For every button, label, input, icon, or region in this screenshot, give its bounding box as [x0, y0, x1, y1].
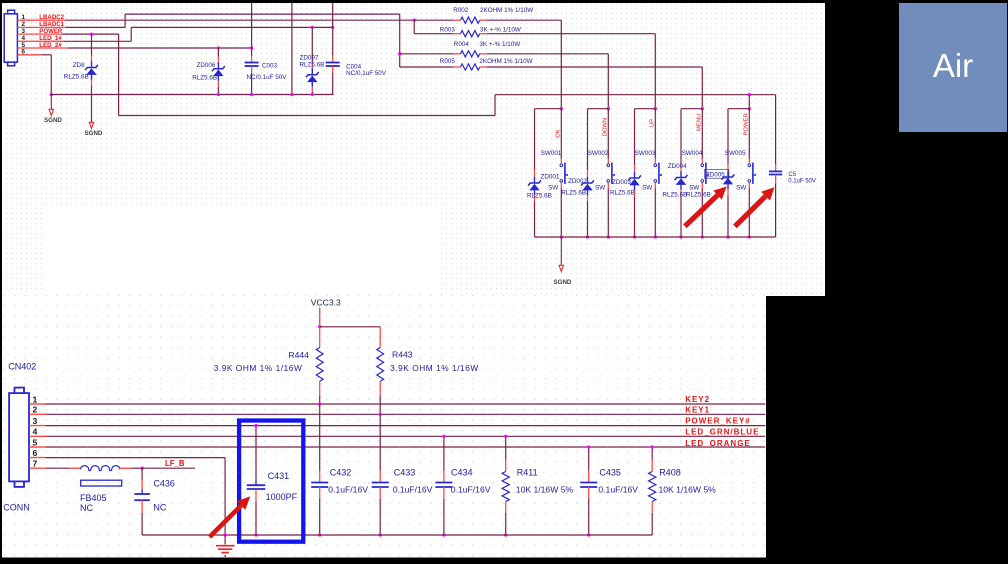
wire LBADC1 upper run — [125, 13, 400, 15]
svg-text:C435: C435 — [599, 468, 621, 478]
junction C431/POWER_KEY# row — [254, 424, 257, 427]
CN402 pin 2 stub (red) — [29, 413, 46, 415]
switch column 5: SW005 / ZD005 (POWER) — [686, 95, 756, 237]
svg-text:NC/0.1uF 50V: NC/0.1uF 50V — [247, 74, 288, 81]
junction LED_1#/ZD097 — [311, 26, 314, 29]
resistor R004 — [400, 41, 609, 57]
svg-text:C003: C003 — [262, 63, 278, 70]
capacitor C433 — [372, 415, 433, 536]
svg-text:POWER: POWER — [744, 113, 750, 135]
svg-text:RLZ5.6B: RLZ5.6B — [662, 191, 687, 198]
capacitor C435 — [580, 447, 638, 535]
wire row2 to right edge — [46, 413, 766, 415]
junction SW001/bottom bus — [560, 235, 563, 238]
pin 3 stub (red) — [17, 33, 62, 35]
svg-text:R003: R003 — [440, 26, 456, 33]
junction pin6/SGND bus — [50, 93, 53, 96]
junction ZD006/ground bus — [217, 93, 220, 96]
junction SW004/bottom bus — [701, 235, 704, 238]
svg-text:R443: R443 — [392, 350, 413, 360]
svg-text:LBADC2: LBADC2 — [39, 14, 64, 21]
junction SW005/bottom bus — [748, 235, 751, 238]
bottom GND bus — [142, 534, 652, 536]
junction LED_2#/ZD006 — [217, 46, 220, 49]
svg-text:C5: C5 — [788, 172, 796, 178]
CN402 pin 3 stub (red) — [29, 425, 46, 427]
switch column 2: SW002 / ZD002 (DOWN) — [561, 54, 615, 237]
resistor R408 — [649, 447, 717, 535]
junction R443/KEY1 row — [379, 413, 382, 416]
svg-text:7: 7 — [33, 459, 38, 469]
wire R003 feed drop — [413, 20, 415, 34]
bottom schematic sheet background — [2, 294, 766, 558]
wire POWER row3 — [62, 33, 119, 35]
svg-text:C434: C434 — [451, 468, 473, 478]
wire row6 drop to GND bus — [224, 458, 226, 535]
capacitor C003 — [245, 3, 288, 95]
svg-text:DOWN: DOWN — [603, 118, 609, 137]
pin 6 stub (red) — [17, 54, 42, 56]
pin 1 stub (red) — [17, 19, 66, 21]
wire POWER drop — [118, 34, 120, 115]
svg-text:ZD004: ZD004 — [668, 163, 687, 170]
wire pin6 drop to ground bus — [50, 55, 52, 95]
resistor R005 — [400, 58, 703, 70]
svg-text:LF_B: LF_B — [165, 459, 185, 468]
junction LBADC2/R002/R003 — [413, 19, 416, 22]
svg-text:NC: NC — [153, 503, 166, 513]
wire POWER lower run — [119, 115, 495, 117]
svg-text:3.9K OHM 1% 1/16W: 3.9K OHM 1% 1/16W — [390, 363, 479, 373]
svg-text:RLZ5.6B: RLZ5.6B — [686, 191, 711, 198]
junction VCC/R444/R443 — [318, 325, 321, 328]
svg-text:RLZ5.6B: RLZ5.6B — [64, 74, 89, 81]
svg-text:FB405: FB405 — [80, 493, 107, 503]
red callout arrow C (to C431) — [210, 496, 251, 537]
svg-text:4: 4 — [33, 427, 38, 437]
wire VCC to R443 — [320, 326, 381, 328]
junction C003/ground bus — [250, 93, 253, 96]
capacitor C431 (highlighted) — [247, 426, 298, 535]
svg-text:2KOHM 1% 1/10W: 2KOHM 1% 1/10W — [479, 58, 532, 65]
svg-text:UP: UP — [650, 119, 656, 127]
resistor R411 — [502, 436, 573, 535]
junction C435/GND bus — [587, 533, 590, 536]
ferrite bead FB405 — [46, 466, 143, 513]
svg-text:C432: C432 — [330, 468, 352, 478]
svg-text:ZD006: ZD006 — [197, 62, 216, 69]
junction R408/row5 — [651, 445, 654, 448]
svg-text:RLZ5.6B: RLZ5.6B — [561, 190, 586, 197]
svg-text:SW: SW — [642, 185, 652, 192]
svg-text:VCC3.3: VCC3.3 — [311, 298, 341, 308]
junction C433/GND bus — [379, 533, 382, 536]
svg-text:0.1uF/16V: 0.1uF/16V — [393, 484, 433, 494]
wire LED_1# row4 — [64, 40, 131, 42]
junction R004 feed — [398, 52, 401, 55]
svg-text:R408: R408 — [659, 468, 681, 478]
CN402 pin 1 stub (red) — [29, 403, 46, 405]
capacitor C432 — [311, 404, 368, 535]
red callout arrow B (to C5) — [735, 187, 775, 226]
capacitor C436 — [134, 468, 175, 535]
junction C435/row5 — [587, 445, 590, 448]
junction R444/KEY2 row — [318, 402, 321, 405]
junction SW003/bottom bus — [654, 235, 657, 238]
CN402 pin 6 stub (red) — [29, 457, 46, 459]
junction LED_2#/C003 — [250, 46, 253, 49]
svg-text:LED_ORANGE: LED_ORANGE — [685, 439, 751, 448]
wire row1 to right edge — [46, 403, 766, 405]
SGND stub 1 — [50, 95, 52, 110]
svg-text:ZD001: ZD001 — [541, 174, 560, 181]
svg-text:0.1uF/16V: 0.1uF/16V — [451, 484, 491, 494]
svg-text:R411: R411 — [517, 468, 538, 478]
switch bank bottom bus — [535, 236, 776, 238]
svg-text:R004: R004 — [454, 41, 470, 48]
svg-text:SW: SW — [548, 185, 558, 192]
pin 5 stub (red) — [17, 47, 68, 49]
power symbol VCC3.3 — [311, 298, 341, 327]
svg-text:1000PF: 1000PF — [266, 492, 298, 502]
svg-text:SW005: SW005 — [725, 150, 746, 157]
ground SGND symbol 3 (bank) — [554, 265, 572, 286]
wire POWER jog up — [494, 95, 496, 116]
wire LED_1# jog up — [130, 27, 132, 41]
pin 4 stub (red) — [17, 40, 64, 42]
ZD005 label selection box — [704, 170, 729, 179]
wire LF_B — [142, 467, 195, 469]
wire row6 — [46, 457, 226, 459]
zener diode ZD8 — [64, 34, 98, 122]
SGND stub (bank) — [560, 237, 562, 265]
red callout arrow A (to ZD005) — [685, 187, 727, 227]
svg-text:RLZ5.6B: RLZ5.6B — [527, 193, 552, 200]
junction C431/GND bus — [254, 533, 257, 536]
svg-text:ZD8: ZD8 — [73, 62, 85, 69]
wire row3 to right edge — [46, 425, 766, 427]
svg-text:3K +-% 1/10W: 3K +-% 1/10W — [480, 26, 521, 33]
junction POWER/ZD8 — [90, 32, 93, 35]
svg-text:CN402: CN402 — [8, 361, 36, 371]
connector CN402 (bottom-left, 7-pin) — [9, 388, 29, 487]
svg-text:RLZ5.6B: RLZ5.6B — [192, 75, 217, 82]
switch column 3: SW003 / ZD003 (UP) — [610, 34, 662, 237]
capacitor C004 — [326, 3, 387, 95]
wire LBADC1 row2 — [66, 26, 125, 28]
ground SGND symbol 2 (ZD8) — [85, 122, 103, 137]
svg-text:ZD097: ZD097 — [300, 54, 319, 61]
svg-text:KEY2: KEY2 — [685, 395, 710, 404]
wire row5 to right edge — [46, 446, 766, 448]
blue highlight box around C431 — [239, 421, 303, 542]
junction R411/row4 — [504, 435, 507, 438]
svg-text:1: 1 — [33, 394, 38, 404]
svg-text:SW004: SW004 — [682, 150, 703, 157]
svg-text:NC: NC — [80, 503, 93, 513]
svg-text:R002: R002 — [453, 7, 469, 14]
svg-text:NC/0.1uF 50V: NC/0.1uF 50V — [346, 70, 387, 77]
svg-text:LED_GRN/BLUE: LED_GRN/BLUE — [685, 428, 759, 437]
svg-text:R005: R005 — [440, 58, 456, 65]
junction C434/GND bus — [442, 533, 445, 536]
wire LBADC2 row1 — [66, 19, 414, 21]
svg-text:0.1uF/16V: 0.1uF/16V — [328, 484, 368, 494]
wire pin6 row6 — [42, 54, 51, 56]
svg-text:3.9K OHM 1% 1/16W: 3.9K OHM 1% 1/16W — [214, 363, 303, 373]
wire LBADC1 jog up — [124, 14, 126, 27]
junction POWER/SW005 riser — [748, 93, 751, 96]
svg-text:5: 5 — [33, 437, 38, 447]
svg-text:CONN: CONN — [3, 503, 30, 513]
svg-text:0.1uF/16V: 0.1uF/16V — [598, 484, 638, 494]
junction ZD097/ground bus — [311, 93, 314, 96]
wire LED_1# run to C004 — [131, 26, 333, 28]
Air theme box (slide thumbnail) — [899, 3, 1007, 132]
junction C434/row4 — [442, 435, 445, 438]
junction SW002/bottom bus — [607, 235, 610, 238]
junction ZD004 rail/bottom bus — [679, 235, 682, 238]
svg-text:RLZ5.6B: RLZ5.6B — [610, 190, 635, 197]
svg-text:2KOHM 1% 1/10W: 2KOHM 1% 1/10W — [480, 7, 533, 14]
CN402 pin 4 stub (red) — [29, 435, 46, 437]
svg-text:SW001: SW001 — [541, 150, 562, 157]
vertical wire from top edge (x=292) — [291, 3, 293, 95]
svg-text:LED_2#: LED_2# — [39, 42, 62, 49]
earth ground symbol (red) — [216, 535, 235, 556]
junction row6/GND symbol/bus — [223, 533, 226, 536]
capacitor C434 — [435, 436, 490, 535]
svg-text:10K 1/16W 5%: 10K 1/16W 5% — [659, 484, 717, 494]
resistor R003 — [414, 26, 655, 37]
svg-text:MENU: MENU — [697, 114, 703, 131]
zener diode ZD097 — [300, 27, 325, 94]
svg-text:ZD002: ZD002 — [568, 178, 587, 185]
wire LED_2# row5 — [68, 47, 252, 49]
junction R411/GND bus — [504, 533, 507, 536]
capacitor C5 — [769, 95, 816, 237]
svg-text:2: 2 — [33, 405, 38, 415]
wire LBADC1 drop to R004/R005 — [399, 14, 401, 67]
switch column 1: SW001 / ZD001 (OK) — [527, 20, 568, 237]
svg-text:C433: C433 — [394, 468, 416, 478]
top schematic sheet background — [2, 3, 825, 296]
ground SGND symbol 1 — [44, 109, 62, 124]
svg-text:SGND: SGND — [85, 130, 103, 137]
svg-text:SW002: SW002 — [588, 150, 609, 157]
junction row7/C436 — [140, 467, 143, 470]
ground bus (top-left) — [51, 94, 333, 96]
wire row4 to right edge — [46, 435, 766, 437]
svg-text:C431: C431 — [268, 471, 290, 481]
pin 2 stub (red) — [17, 26, 66, 28]
CN402 pin 5 stub (red) — [29, 446, 46, 448]
svg-text:6: 6 — [33, 448, 38, 458]
zener diode ZD006 — [192, 48, 225, 95]
svg-text:SW003: SW003 — [635, 150, 656, 157]
svg-text:R444: R444 — [288, 350, 309, 360]
svg-text:Air: Air — [933, 47, 973, 84]
resistor R444 — [214, 327, 323, 404]
junction LED_1#/C004 — [331, 26, 334, 29]
junction ZD003 rail/bottom bus — [633, 235, 636, 238]
wire POWER upper run to C5 — [495, 94, 776, 96]
svg-text:POWER: POWER — [39, 28, 63, 35]
svg-text:SGND: SGND — [554, 279, 572, 286]
resistor R002 — [414, 7, 561, 23]
svg-text:OK: OK — [556, 129, 562, 138]
svg-text:SW: SW — [736, 185, 746, 192]
svg-text:3: 3 — [33, 416, 38, 426]
svg-text:POWER_KEY#: POWER_KEY# — [685, 417, 751, 426]
CN402 pin 7 stub (red) — [29, 467, 46, 469]
connector J1 (top-left, 6-pin) — [4, 10, 17, 66]
svg-text:0.1uF 50V: 0.1uF 50V — [788, 179, 816, 185]
svg-text:3K +-% 1/10W: 3K +-% 1/10W — [479, 41, 520, 48]
junction ZD005 rail/bottom bus — [726, 235, 729, 238]
junction C432/GND bus — [318, 533, 321, 536]
resistor R443 — [377, 327, 479, 415]
svg-text:ZD005: ZD005 — [706, 172, 725, 179]
svg-text:SW: SW — [595, 185, 605, 192]
junction ZD002 rail/bottom bus — [586, 235, 589, 238]
svg-text:10K 1/16W 5%: 10K 1/16W 5% — [516, 484, 574, 494]
svg-text:C436: C436 — [153, 479, 175, 489]
svg-text:RLZ5.6B: RLZ5.6B — [300, 61, 325, 68]
svg-text:SGND: SGND — [44, 117, 62, 124]
svg-text:ZD003: ZD003 — [612, 179, 631, 186]
svg-text:KEY1: KEY1 — [685, 405, 710, 414]
switch column 4: SW004 / ZD004 (MENU) — [662, 67, 709, 237]
junction x292/ground bus — [290, 93, 293, 96]
